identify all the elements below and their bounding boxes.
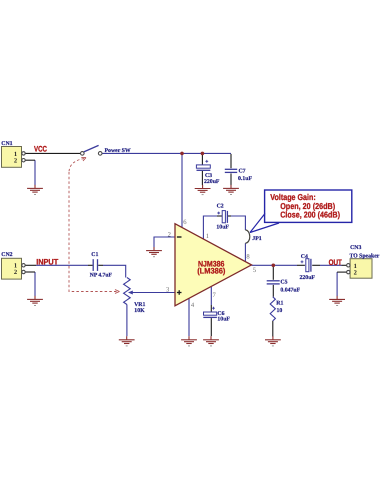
svg-text:Power SW: Power SW <box>105 148 131 154</box>
svg-text:C2: C2 <box>217 204 224 210</box>
svg-text:10: 10 <box>277 308 283 314</box>
svg-text:JP1: JP1 <box>252 236 261 242</box>
svg-text:C4: C4 <box>301 254 308 260</box>
svg-text:10uF: 10uF <box>216 224 229 230</box>
svg-text:2: 2 <box>14 157 17 164</box>
svg-text:CN3: CN3 <box>350 245 361 251</box>
svg-text:INPUT: INPUT <box>36 257 58 266</box>
svg-text:C5: C5 <box>280 279 287 285</box>
svg-text:C7: C7 <box>239 168 246 174</box>
svg-text:2: 2 <box>354 269 357 276</box>
svg-text:Close, 200 (46dB): Close, 200 (46dB) <box>280 209 340 219</box>
svg-text:2: 2 <box>14 269 17 276</box>
svg-text:VCC: VCC <box>34 145 47 154</box>
svg-text:C1: C1 <box>91 252 98 258</box>
svg-text:0.047uF: 0.047uF <box>280 288 300 294</box>
svg-text:OUT: OUT <box>329 258 342 267</box>
svg-text:0.1uF: 0.1uF <box>238 176 252 182</box>
svg-text:220uF: 220uF <box>204 179 220 185</box>
svg-text:CN1: CN1 <box>1 141 12 147</box>
svg-text:TO Speaker: TO Speaker <box>350 252 380 259</box>
svg-text:1: 1 <box>206 233 209 240</box>
svg-text:2: 2 <box>168 232 171 239</box>
svg-text:R1: R1 <box>276 301 283 307</box>
svg-text:220uF: 220uF <box>300 275 316 281</box>
svg-text:(LM386): (LM386) <box>197 267 226 276</box>
svg-text:10K: 10K <box>134 308 145 314</box>
svg-text:CN2: CN2 <box>1 252 12 258</box>
svg-text:NP 4.7uF: NP 4.7uF <box>90 272 113 278</box>
svg-text:10uF: 10uF <box>217 317 230 323</box>
